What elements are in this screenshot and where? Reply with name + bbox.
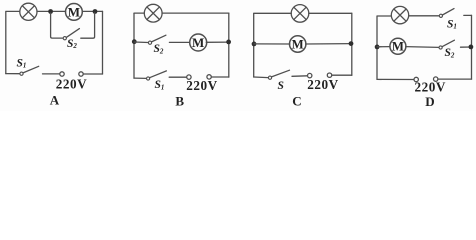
- terminal (left), 220V source, circuit B: [187, 75, 191, 79]
- wire: B middle branch, M to right wire: [206, 41, 229, 43]
- wire: B right vertical: [228, 13, 230, 77]
- wire: A S2-branch left vertical: [51, 13, 63, 38]
- wire: B bottom left segment: [134, 77, 146, 79]
- wire: D top fixed contact to right corner: [464, 14, 472, 16]
- wire: A right vertical: [102, 11, 104, 74]
- wire: B S1 fixed contact to terminal: [169, 76, 186, 78]
- wire: C middle branch, M to right wire: [306, 43, 352, 45]
- wire: B middle branch, node to switch: [134, 41, 148, 44]
- motor U (circle with M), circuit A: [66, 4, 83, 21]
- svg-text:C: C: [292, 93, 301, 108]
- wire: A S1 fixed contact to terminal: [43, 73, 60, 75]
- wire: D bottom left segment: [377, 78, 414, 80]
- svg-text:B: B: [175, 93, 184, 108]
- wire: B left vertical: [133, 14, 135, 78]
- lamp L (circle with X), circuit C: [291, 5, 309, 23]
- wire: D terminal to right corner: [438, 78, 472, 80]
- svg-text:220V: 220V: [56, 76, 88, 91]
- node (junction dot) B-right, middle branch: [226, 40, 231, 45]
- lamp L (circle with X), circuit A: [20, 3, 37, 20]
- switch S2, circuit B (pivot + blade): [148, 35, 166, 44]
- wire: A top, M to corner: [82, 10, 102, 12]
- svg-text:S1: S1: [17, 58, 27, 70]
- svg-text:M: M: [192, 35, 204, 50]
- node (junction dot) A-left of M branch: [48, 9, 53, 14]
- svg-text:M: M: [292, 37, 304, 51]
- wire: B middle branch, fixed contact to M: [169, 41, 189, 43]
- wire: C bottom left segment: [254, 76, 268, 79]
- node (junction dot) C-right, middle branch: [349, 41, 354, 46]
- svg-text:220V: 220V: [186, 78, 218, 93]
- terminal (left), 220V source, circuit D: [414, 77, 418, 81]
- svg-text:M: M: [392, 40, 404, 54]
- node (junction dot) D-right, middle branch: [469, 45, 474, 50]
- terminal (right), 220V source, circuit C: [327, 73, 331, 77]
- wire: D top left segment: [377, 15, 391, 17]
- wire: D right vertical: [471, 15, 473, 79]
- wire: C left vertical: [253, 14, 255, 77]
- wire: A left vertical: [5, 12, 7, 74]
- svg-text:S1: S1: [155, 79, 165, 91]
- wire: D left vertical: [376, 17, 378, 80]
- wire: B terminal to right corner: [211, 76, 229, 78]
- motor U (circle with M), circuit D: [390, 38, 406, 54]
- svg-text:M: M: [68, 4, 80, 19]
- switch S2, circuit A (pivot + blade): [63, 29, 79, 40]
- node (junction dot) C-left, middle branch: [252, 42, 257, 47]
- svg-text:220V: 220V: [414, 79, 446, 94]
- switch S1, circuit D (pivot + blade): [439, 9, 454, 18]
- svg-text:S2: S2: [154, 43, 164, 55]
- terminal (right), 220V source, circuit D: [434, 77, 438, 81]
- svg-text:S2: S2: [445, 47, 455, 59]
- wire: A bottom left segment: [6, 73, 20, 75]
- switch S2, circuit D (pivot + blade): [439, 40, 454, 49]
- wire: C top, lamp to right corner: [309, 12, 352, 14]
- svg-text:S: S: [278, 80, 284, 92]
- wire: A top, lamp to node: [37, 10, 66, 12]
- wire: A S2-branch fixed contact to right vertical: [81, 13, 95, 38]
- wire: D top, lamp to switch: [409, 15, 439, 17]
- wire: D middle branch, M to switch: [406, 46, 439, 49]
- motor U (circle with M), circuit C: [290, 36, 306, 52]
- node (junction dot) D-left, middle branch: [375, 45, 380, 50]
- switch S, circuit C (pivot + blade): [268, 70, 289, 79]
- wire: C right vertical: [351, 13, 353, 75]
- terminal (right), 220V source, circuit B: [207, 75, 211, 79]
- wire: B top, lamp to right corner: [162, 12, 229, 14]
- node (junction dot) A-right of M branch: [93, 9, 98, 14]
- wire: D middle fixed contact to right wire: [461, 46, 472, 48]
- svg-text:S1: S1: [447, 18, 457, 30]
- lamp L (circle with X), circuit B: [144, 4, 162, 22]
- svg-text:220V: 220V: [307, 77, 339, 92]
- wire: C terminal to right corner: [332, 74, 352, 76]
- wire: C middle branch, node to M: [254, 43, 290, 45]
- svg-text:A: A: [50, 93, 60, 108]
- svg-text:D: D: [425, 94, 434, 109]
- wire: A top left segment: [6, 10, 20, 12]
- node (junction dot) B-left, middle branch: [132, 39, 137, 44]
- svg-text:S2: S2: [67, 38, 77, 50]
- terminal (left), 220V source, circuit A: [60, 72, 64, 76]
- terminal (left), 220V source, circuit C: [308, 73, 312, 77]
- wire: A terminal to right corner: [83, 73, 102, 75]
- wire: D middle branch, node to M: [377, 46, 390, 48]
- wire: C top left segment: [254, 12, 292, 14]
- terminal (right), 220V source, circuit A: [79, 72, 83, 76]
- motor U (circle with M), circuit B: [190, 34, 207, 51]
- switch S1, circuit A (pivot + blade): [20, 66, 39, 75]
- wire: C S fixed contact to terminal: [292, 75, 307, 78]
- wire: B top left segment: [134, 12, 144, 14]
- switch S1, circuit B (pivot + blade): [147, 71, 167, 80]
- lamp L (circle with X), circuit D: [391, 6, 408, 23]
